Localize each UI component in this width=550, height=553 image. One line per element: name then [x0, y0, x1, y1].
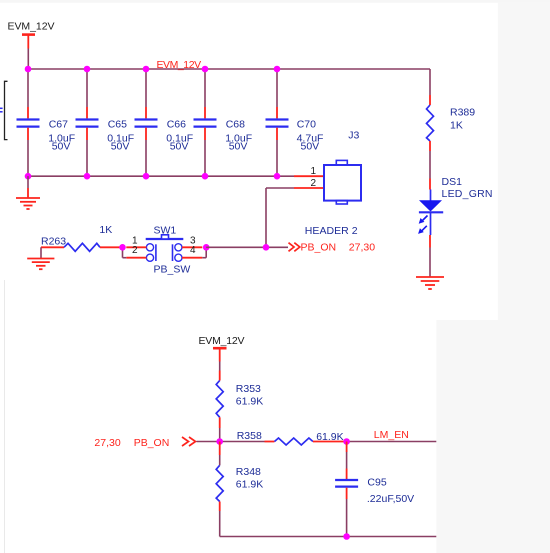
svg-text:C95: C95 — [367, 477, 386, 489]
ground (cap bank) — [16, 176, 40, 209]
svg-text:PB_SW: PB_SW — [154, 263, 191, 275]
wire SW1 right L — [205, 247, 207, 257]
ground (R263) — [27, 247, 54, 269]
off-page PB_ON bottom — [94, 437, 195, 449]
resistor R348 — [216, 442, 263, 512]
power symbol EVM_12V top-left — [8, 20, 55, 48]
svg-text:PB_ON: PB_ON — [301, 242, 337, 254]
off-page bracket (clipped) — [5, 81, 8, 139]
gray strip top — [0, 0, 550, 3]
node R353/R358 — [216, 438, 223, 445]
svg-text:61.9K: 61.9K — [236, 479, 263, 491]
LED DS1 — [418, 176, 492, 247]
svg-text:50V: 50V — [301, 141, 320, 153]
svg-text:PB_ON: PB_ON — [134, 437, 170, 449]
capacitor C95 — [335, 442, 414, 537]
wire top bus EVM_12V — [28, 68, 430, 70]
switch SW1 — [126, 225, 202, 276]
svg-text:1K: 1K — [99, 224, 112, 236]
wire PB_ON top — [206, 246, 288, 248]
wire R389 to LED — [429, 151, 431, 179]
wire power to bus — [27, 49, 29, 70]
wire R348 to bottom rail — [219, 511, 221, 537]
svg-text:27,30: 27,30 — [94, 437, 120, 449]
gray band right upper — [498, 3, 550, 320]
capacitor C70 — [266, 69, 324, 176]
svg-text:50V: 50V — [170, 141, 189, 153]
svg-text:.22uF,50V: .22uF,50V — [367, 493, 414, 505]
svg-text:EVM_12V: EVM_12V — [8, 20, 55, 32]
wire LED to ground — [429, 248, 431, 278]
svg-text:R358: R358 — [237, 430, 262, 442]
wire SW1 left L — [122, 247, 124, 257]
node C95 bottom — [343, 533, 350, 540]
svg-text:4: 4 — [190, 245, 196, 256]
off-page PB_ON top — [289, 242, 376, 254]
svg-text:R389: R389 — [450, 106, 475, 118]
svg-text:R263: R263 — [41, 236, 66, 248]
svg-text:50V: 50V — [111, 141, 130, 153]
node SW1 left — [119, 244, 126, 251]
svg-text:HEADER 2: HEADER 2 — [305, 225, 358, 237]
svg-text:LED_GRN: LED_GRN — [442, 188, 493, 200]
wire power to R353 — [219, 362, 221, 371]
svg-text:1: 1 — [311, 166, 317, 177]
resistor R389 — [427, 69, 476, 151]
svg-text:2: 2 — [311, 178, 317, 189]
wire J3 pin2 branch — [266, 187, 294, 189]
node J3 branch — [263, 244, 270, 251]
svg-text:EVM_12V: EVM_12V — [199, 335, 245, 347]
svg-text:27,30: 27,30 — [349, 242, 375, 254]
svg-text:50V: 50V — [229, 141, 248, 153]
wire R353 to node — [219, 428, 221, 442]
svg-text:61.9K: 61.9K — [236, 396, 263, 408]
wire PB_ON bottom — [197, 441, 265, 443]
svg-text:2: 2 — [132, 245, 138, 256]
clipped blue marks — [0, 107, 3, 109]
wire bottom rail — [28, 175, 294, 177]
resistor R353 — [216, 371, 263, 429]
svg-text:61.9K: 61.9K — [316, 431, 343, 443]
svg-text:C70: C70 — [297, 118, 316, 130]
svg-text:1K: 1K — [450, 120, 463, 132]
svg-text:C68: C68 — [226, 118, 245, 130]
node C95 top — [343, 438, 350, 445]
svg-text:C67: C67 — [49, 118, 68, 130]
capacitor C67 — [17, 69, 76, 176]
svg-text:EVM_12V: EVM_12V — [157, 59, 202, 71]
power symbol EVM_12V bottom — [199, 335, 245, 362]
wire LM_EN — [347, 441, 437, 443]
resistor R263 — [41, 224, 123, 251]
capacitor C68 — [194, 69, 253, 176]
svg-text:DS1: DS1 — [442, 176, 463, 188]
gray band right lower — [436, 320, 550, 553]
capacitor C65 — [76, 69, 135, 176]
svg-text:J3: J3 — [348, 130, 359, 142]
junction dots bottom rail — [25, 173, 32, 180]
svg-text:R348: R348 — [236, 466, 261, 478]
svg-text:C65: C65 — [108, 118, 127, 130]
ground (DS1) — [416, 277, 444, 289]
svg-text:C66: C66 — [167, 118, 186, 130]
svg-text:50V: 50V — [52, 141, 71, 153]
svg-text:LM_EN: LM_EN — [374, 429, 409, 441]
capacitor C66 — [135, 69, 194, 176]
resistor R358 — [237, 430, 347, 445]
faint page edge line bottom-left — [4, 280, 6, 553]
connector J3 — [294, 130, 361, 237]
node SW1 right — [203, 244, 210, 251]
svg-text:R353: R353 — [236, 383, 261, 395]
junction dots top bus — [25, 66, 32, 73]
wire bottom rail 2 — [220, 536, 437, 538]
